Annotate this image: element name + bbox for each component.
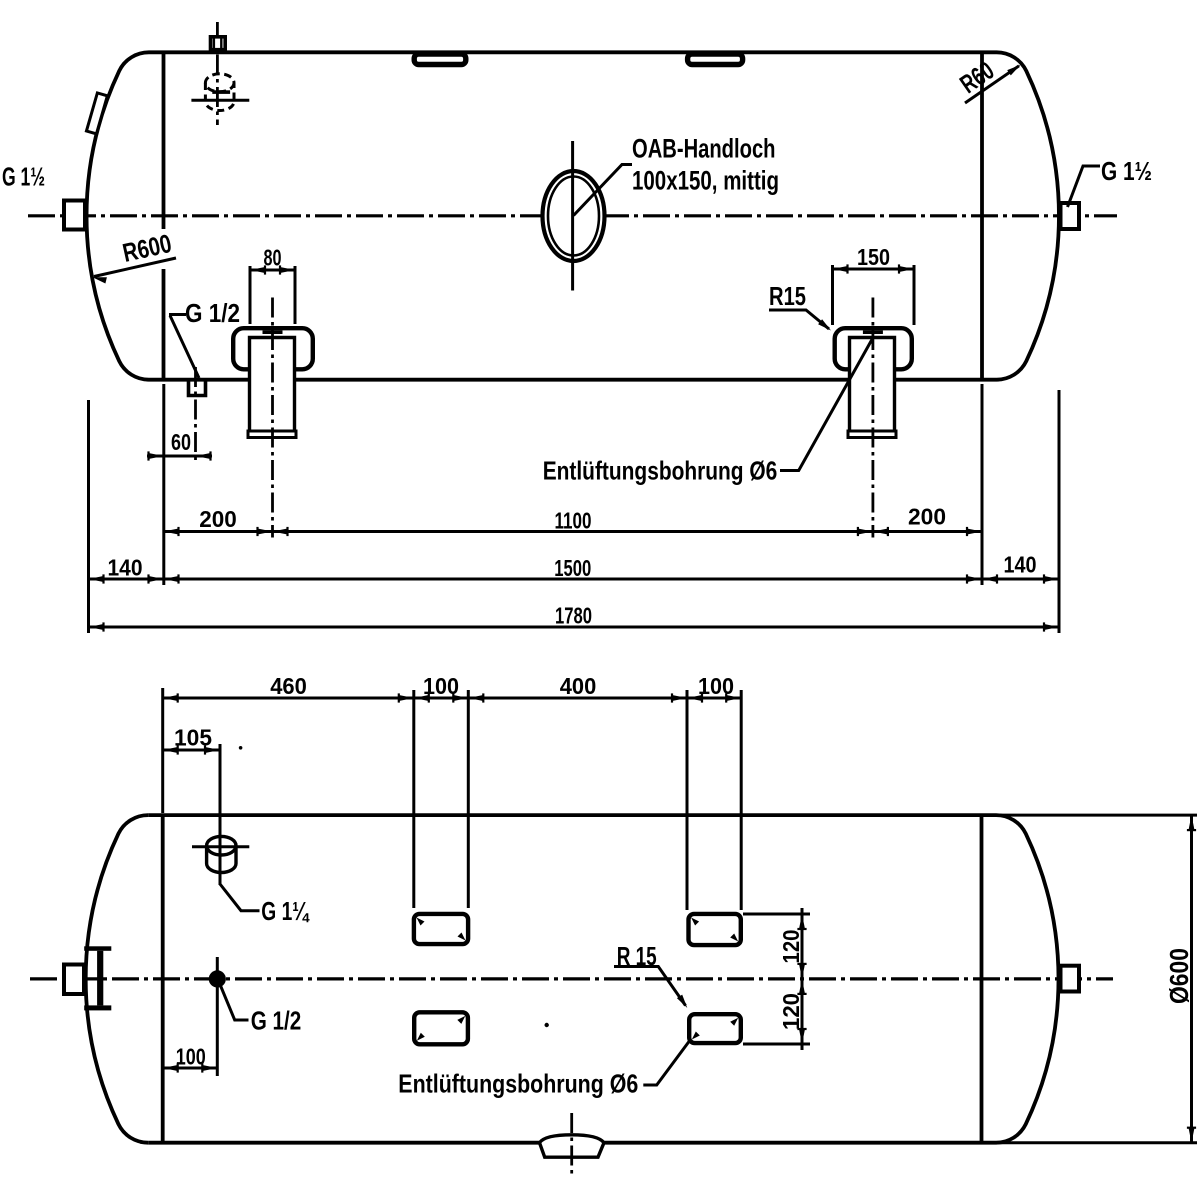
- plan view: upper right pad corner ticks: [691, 918, 699, 926]
- side view: left leg pad R15: [233, 328, 313, 369]
- label R600 with leader arrow: [94, 258, 176, 277]
- svg-text:140: 140: [108, 555, 143, 581]
- side view: left leg foot: [248, 431, 296, 438]
- side view: top nozzle horizontal crosshair: [191, 99, 249, 102]
- svg-text:150: 150: [857, 244, 890, 270]
- side view: top nozzle stub: [211, 37, 226, 50]
- side view: left leg channel: [250, 338, 295, 432]
- plan view: handhole cover bump at bottom: [540, 1135, 605, 1143]
- plan view: right weld seam line: [980, 815, 984, 1143]
- svg-text:Ø600: Ø600: [1164, 948, 1194, 1004]
- plan view: lower left pad corner ticks: [457, 1016, 465, 1024]
- plan view: left end flange bar: [97, 951, 103, 1006]
- side view: left nozzle G 1 1/2: [64, 201, 85, 230]
- side view: left leg vent hole bar: [263, 330, 283, 334]
- plan view: lower left mounting pad slot R15: [414, 1012, 468, 1044]
- svg-text:100: 100: [698, 673, 734, 699]
- svg-text:100: 100: [176, 1044, 206, 1070]
- svg-text:120: 120: [778, 930, 804, 964]
- svg-text:400: 400: [560, 673, 597, 699]
- svg-text:200: 200: [199, 506, 237, 532]
- plan view: G 1/2 drain dot: [209, 970, 226, 987]
- svg-text:105: 105: [174, 725, 212, 751]
- svg-text:G 1¼: G 1¼: [261, 896, 310, 926]
- svg-text:140: 140: [1004, 552, 1037, 578]
- svg-text:60: 60: [171, 429, 191, 455]
- side view: top nozzle section bar: [212, 90, 230, 94]
- side view: left weld seam line: [162, 52, 166, 379]
- plan view: G 1 1/4 crosshair: [192, 845, 249, 848]
- svg-text:100: 100: [423, 673, 459, 699]
- dimension row 200 1100 200: [164, 530, 983, 533]
- side view: right leg channel: [850, 338, 895, 432]
- label R60 with leader arrow: [965, 66, 1019, 103]
- svg-text:OAB-Handloch: OAB-Handloch: [632, 134, 776, 164]
- label Entlueftungsbohrung side with leader: [780, 339, 873, 471]
- plan view: upper right mounting pad slot R15: [689, 914, 741, 945]
- svg-text:460: 460: [270, 673, 307, 699]
- dimension row 140 1500 140: [87, 400, 90, 633]
- side view: shell top line: [149, 50, 997, 54]
- side view: drain centerline: [194, 367, 197, 462]
- side view: handhole ellipse inner: [548, 177, 599, 256]
- leader G 1 1/4: [220, 884, 260, 911]
- dimension 150 above right leg: [831, 265, 834, 325]
- side view: right nozzle G 1 1/2: [1061, 203, 1080, 229]
- svg-text:G 1½: G 1½: [2, 162, 45, 192]
- svg-text:1100: 1100: [555, 508, 592, 534]
- plan view: left end flange top cap: [84, 946, 111, 951]
- plan view: right dished head: [996, 815, 1059, 1143]
- plan view: handhole cover centerline: [570, 1113, 573, 1177]
- label R 15 plan with leader arrow: [614, 967, 686, 1006]
- stray dot mid plan: [545, 1023, 549, 1027]
- plan view: upper left mounting pad slot R15: [414, 914, 468, 944]
- plan view: shell top line: [148, 813, 996, 817]
- plan view: upper left pad corner ticks: [417, 918, 425, 926]
- stray dot near 105: [239, 746, 243, 750]
- side view: hidden ellipse of top nozzle: [205, 74, 234, 92]
- svg-text:G 1½: G 1½: [1101, 156, 1152, 186]
- dimension 60 drain offset: [162, 384, 165, 585]
- label Entlueftungsbohrung plan with leader: [643, 1042, 689, 1086]
- plan dimension 120 120: [743, 913, 810, 916]
- svg-text:100x150, mittig: 100x150, mittig: [632, 166, 779, 196]
- svg-text:R 15: R 15: [617, 941, 657, 971]
- plan view: shell bottom line (interrupted at handhole cover): [148, 1141, 996, 1145]
- plan view: G 1 1/4 nozzle ellipse: [207, 836, 236, 855]
- dimension 1780 overall: [89, 626, 1060, 629]
- side view: right leg foot: [848, 431, 896, 438]
- plan view: lower right mounting pad slot R15: [689, 1014, 741, 1043]
- plan view: horizontal centerline: [30, 977, 1113, 980]
- side view: handhole vertical crosshair: [571, 141, 574, 291]
- side view: handhole ellipse outer: [543, 171, 605, 261]
- side view: top mounting pad left: [414, 54, 466, 65]
- plan view: left dished head: [86, 815, 149, 1143]
- svg-text:G 1/2: G 1/2: [185, 298, 240, 328]
- dimension 80 above left leg: [249, 266, 252, 324]
- side view: right dished head R600 with R60 knuckle: [997, 52, 1059, 379]
- leader G 1/2 side: [169, 315, 199, 379]
- svg-text:Entlüftungsbohrung Ø6: Entlüftungsbohrung Ø6: [398, 1069, 638, 1099]
- side view: left leg centerline: [271, 298, 274, 538]
- side view: top mounting pad right: [688, 54, 743, 65]
- side view: right weld seam line: [980, 52, 984, 379]
- leader G 1/2 plan: [219, 982, 249, 1020]
- plan view: left weld seam line: [161, 815, 165, 1143]
- side view: right leg centerline: [872, 298, 875, 538]
- plan view: right end nozzle square: [1061, 966, 1080, 992]
- svg-text:1780: 1780: [555, 603, 592, 629]
- plan dimension 105: [163, 749, 220, 752]
- svg-text:Entlüftungsbohrung Ø6: Entlüftungsbohrung Ø6: [543, 456, 778, 486]
- plan view: left end flange bottom cap: [84, 1005, 111, 1010]
- leader OAB-Handloch: [574, 165, 633, 216]
- side view: left dished head R600: [87, 52, 149, 379]
- plan dimension row 460 100 400 100: [161, 688, 164, 813]
- plan view: G 1 1/4 nozzle cylinder body: [207, 846, 236, 873]
- svg-text:R15: R15: [769, 281, 806, 311]
- plan view: left end nozzle G 1 1/2 square: [64, 965, 84, 995]
- plan view: lower right pad corner ticks: [730, 1018, 738, 1026]
- svg-text:1500: 1500: [554, 555, 591, 581]
- svg-text:G 1/2: G 1/2: [251, 1005, 302, 1035]
- side view: horizontal centerline: [28, 214, 1117, 217]
- side view: right leg vent hole bar: [863, 330, 883, 334]
- side view: pad plate on left head: [86, 93, 107, 134]
- svg-text:200: 200: [908, 504, 946, 530]
- leader for right G 1 1/2: [1068, 166, 1101, 207]
- label R15 with leader arrow: [769, 310, 829, 329]
- svg-text:80: 80: [264, 245, 282, 271]
- plan dimension 100 lower left: [163, 1067, 218, 1070]
- side view: shell bottom line (interrupted at legs): [149, 378, 997, 382]
- svg-text:120: 120: [778, 993, 804, 1030]
- side view: top nozzle centerline: [216, 22, 219, 125]
- side view: drain stub G 1/2: [189, 381, 206, 396]
- side view: right leg pad R15: [835, 328, 912, 369]
- plan dimension diameter 600: [996, 814, 1197, 817]
